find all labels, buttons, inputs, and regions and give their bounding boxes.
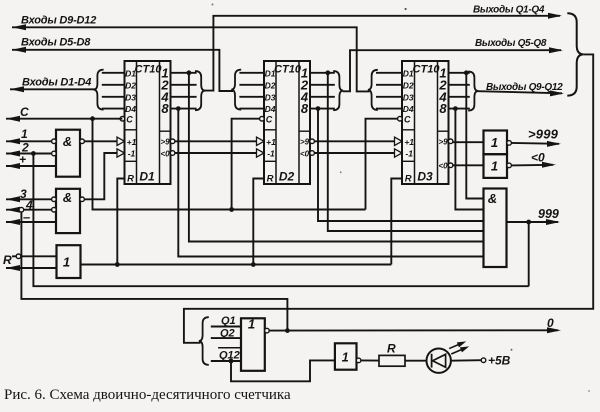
wire D3 input D10 — [376, 84, 402, 86]
svg-text:R: R — [3, 253, 12, 267]
U1 output circle — [80, 139, 85, 144]
wire D3 output 1 — [449, 72, 470, 74]
svg-text:D2: D2 — [279, 170, 295, 184]
wire D1 input D3 — [102, 96, 125, 98]
wire R to LED — [405, 360, 427, 362]
wire input 1 — [6, 140, 52, 142]
wire D3 output 8 — [449, 108, 470, 110]
arrow output >999 — [547, 141, 561, 147]
junction D1 output 8 — [176, 106, 181, 111]
D3 pin >9 inversion circle — [448, 139, 453, 144]
svg-text:R: R — [267, 174, 274, 185]
svg-text:<0: <0 — [160, 149, 170, 158]
wire D2 output 4 — [310, 96, 335, 98]
wire D2 input D7 — [239, 96, 264, 98]
junction C net — [90, 116, 95, 121]
wire D2 <0 to D3 -1 — [315, 152, 395, 154]
buffer U3 (1) for R — [57, 245, 81, 278]
svg-text:>9: >9 — [438, 138, 448, 147]
arrow input 3 — [6, 196, 20, 202]
wire C net lower run — [93, 119, 366, 210]
svg-text:1: 1 — [342, 351, 349, 365]
wire U2 out to D1 -1 — [84, 153, 117, 199]
wire input R upper — [12, 255, 57, 257]
terminal +5V — [481, 358, 486, 363]
svg-text:C: C — [404, 115, 411, 125]
arrow output 999 — [546, 219, 560, 225]
wire D2 output 2 — [310, 84, 335, 86]
wire D1 input D4 — [102, 108, 125, 110]
wire net Q9-Q12 — [478, 91, 562, 93]
brace inputs D1-D4 to D1 — [94, 70, 104, 110]
svg-text:8: 8 — [301, 101, 309, 116]
wire input + — [6, 165, 56, 167]
wire net 0 feedback to 4 — [21, 212, 287, 331]
svg-text:D4: D4 — [403, 104, 414, 114]
svg-text:D3: D3 — [417, 170, 433, 184]
junction input 2 net — [31, 151, 36, 156]
D2 pin <0 inversion circle — [310, 151, 315, 156]
brace outputs D3 (Q9-Q12) — [468, 72, 478, 111]
junction R net to D2 — [251, 262, 256, 267]
arrow input 1 — [6, 138, 20, 144]
D2 pin -1 dynamic triangle — [257, 149, 265, 157]
D3 pin +1 dynamic triangle — [395, 137, 403, 145]
wire net 0 output — [269, 329, 558, 331]
junction D3 output 1 — [464, 70, 469, 75]
counter D3 (CT10) — [395, 61, 453, 185]
U5 output circle — [507, 163, 512, 168]
wire Q2 input — [211, 337, 241, 339]
inverter U8 (1) LED driver — [335, 343, 357, 369]
wire D1 <0 to D2 -1 — [175, 152, 257, 154]
junction D1 output 1 — [187, 70, 192, 75]
brace bus to Q1 Q2 Q12 — [199, 317, 209, 365]
svg-text:8: 8 — [161, 101, 169, 116]
counter D2 (CT10) — [257, 61, 315, 185]
U1 input circle 2 — [52, 151, 57, 156]
OR gate U7 (1) zero detector — [241, 317, 265, 371]
wire D3 <0 to U5 — [453, 164, 484, 166]
AND gate U2 (&) for -1 — [56, 189, 80, 233]
arrow input C — [6, 116, 20, 122]
wire U1 out to D1 +1 — [84, 140, 117, 142]
junction C net to D2 — [229, 207, 234, 212]
wire net D5-D8 — [12, 50, 233, 91]
wire input 2 — [6, 153, 52, 155]
D2 pin C inversion circle — [260, 116, 265, 121]
svg-text:D2: D2 — [265, 80, 276, 90]
wire R riser to D1 — [117, 179, 124, 265]
svg-text:D4: D4 — [265, 104, 276, 114]
wire net C to D1 — [6, 118, 122, 120]
D1 pin -1 dynamic triangle — [117, 149, 125, 157]
wire net D1-D4 — [10, 88, 95, 90]
brace outputs D2 (Q5-Q8) — [333, 71, 343, 110]
wire input 3 — [6, 198, 52, 200]
arrow input D1-D4 — [10, 86, 24, 92]
svg-text:&: & — [63, 134, 72, 149]
svg-text:1: 1 — [21, 127, 28, 141]
wire output 999 — [507, 221, 559, 223]
D3 pin C inversion circle — [398, 116, 403, 121]
svg-text:Выходы Q1-Q4: Выходы Q1-Q4 — [473, 5, 545, 16]
svg-text:R: R — [127, 174, 134, 185]
svg-text:+1: +1 — [266, 137, 276, 147]
svg-text:Входы D9-D12: Входы D9-D12 — [21, 15, 96, 27]
wire D1 output 4 — [171, 96, 197, 98]
wire R riser to D3 — [391, 179, 402, 265]
svg-text:CT10: CT10 — [413, 64, 441, 76]
U2 input circle 1 — [52, 197, 57, 202]
AND gate U1 (&) for +1 — [56, 130, 80, 177]
wire net D9-D12 — [12, 27, 370, 91]
wire R riser to D2 — [253, 179, 264, 265]
svg-text:D3: D3 — [125, 92, 136, 102]
svg-text:&: & — [488, 191, 497, 206]
wire input R lower — [6, 267, 57, 269]
wire D1 output 2 — [171, 84, 197, 86]
junction 0 net — [285, 328, 290, 333]
buffer U5 (1) <0 detector — [484, 154, 508, 178]
U4 output circle — [507, 141, 512, 146]
U8 output circle — [356, 358, 361, 363]
svg-text:1: 1 — [248, 317, 255, 332]
svg-text:+: + — [19, 153, 26, 167]
arrow input − — [6, 219, 20, 225]
wire net 999 feedback to + — [33, 154, 528, 287]
wire D1-1 to U6 — [189, 73, 484, 242]
brace outputs D1 (Q1-Q4) — [195, 71, 205, 110]
wire 999 feedback riser — [528, 222, 530, 286]
junction Q12 to LED driver — [229, 359, 234, 364]
svg-text:Q1: Q1 — [221, 315, 236, 327]
svg-text:>9: >9 — [300, 138, 310, 147]
D1 pin >9 inversion circle — [170, 139, 175, 144]
arrow output Q9-Q12 — [550, 90, 564, 96]
wire Q12 to U8 — [231, 360, 335, 381]
wire D2-8 to U6 — [318, 109, 484, 221]
D2 pin +1 dynamic triangle — [257, 137, 265, 145]
wire D3 >9 to U4 — [453, 141, 484, 143]
wire bus Q1-Q12 feedback — [184, 54, 593, 342]
wire D2 input D8 — [239, 108, 264, 110]
D1 pin +1 dynamic triangle — [117, 137, 125, 145]
wire D3 input D11 — [376, 96, 402, 98]
wire D3 input D12 — [376, 108, 402, 110]
wire output <0 — [511, 164, 553, 167]
svg-text:D1: D1 — [265, 68, 276, 78]
svg-text:C: C — [266, 115, 273, 125]
scan speck — [405, 8, 407, 10]
wire D3 output 4 — [449, 96, 470, 98]
wire net Q1-Q4 — [205, 16, 560, 91]
arrow input + — [6, 163, 20, 169]
U1 input circle 1 — [52, 139, 57, 144]
svg-text:D1: D1 — [139, 170, 155, 184]
terminal circle R input — [16, 254, 21, 259]
overbar Q12 inversion — [218, 347, 241, 349]
svg-text:+1: +1 — [127, 137, 137, 147]
wire D1 >9 to D2 +1 — [175, 140, 257, 142]
LED VD1 — [427, 349, 451, 373]
svg-text:-1: -1 — [128, 149, 136, 159]
svg-text:Рис. 6. Схема двоично-десятичн: Рис. 6. Схема двоично-десятичного счетчи… — [4, 387, 291, 403]
arrow input 4 — [6, 207, 20, 213]
svg-text:>999: >999 — [528, 127, 559, 142]
svg-text:D2: D2 — [403, 80, 414, 90]
wire R net — [81, 264, 392, 266]
wire input − — [6, 221, 56, 223]
wire input 4 — [6, 209, 52, 211]
junction D2 output 1 — [325, 70, 330, 75]
wire D1-8 to U6 — [178, 109, 483, 257]
svg-text:-1: -1 — [267, 149, 275, 159]
arrow input 2 — [6, 151, 20, 157]
wire D3 output 2 — [449, 84, 470, 86]
svg-text:999: 999 — [538, 207, 559, 221]
brace inputs D9-D12 to D3 — [368, 70, 378, 110]
U2 output circle — [80, 197, 85, 202]
resistor R — [379, 355, 405, 366]
wire D2-1 to U6 — [328, 73, 484, 231]
svg-text:-1: -1 — [405, 149, 413, 159]
svg-text:R: R — [405, 174, 412, 185]
svg-text:CT10: CT10 — [135, 64, 163, 76]
svg-text:D3: D3 — [265, 92, 276, 102]
svg-text:Входы D5-D8: Входы D5-D8 — [21, 37, 91, 49]
brace inputs D5-D8 to D2 — [231, 70, 241, 110]
arrow output <0 — [542, 162, 556, 168]
svg-text:CT10: CT10 — [274, 64, 302, 76]
arrow input D5-D8 — [12, 47, 26, 53]
counter D1 (CT10) — [117, 61, 175, 185]
U2 input circle 2 — [52, 207, 57, 212]
wire D2 input D6 — [239, 84, 264, 86]
wire D2 output 8 — [310, 108, 335, 110]
svg-text:+5В: +5В — [488, 354, 511, 368]
D2 pin >9 inversion circle — [310, 139, 315, 144]
svg-text:8: 8 — [439, 101, 447, 116]
wire net Q5-Q8 — [343, 50, 561, 91]
svg-text:D2: D2 — [125, 80, 136, 90]
D3 pin -1 dynamic triangle — [395, 149, 403, 157]
svg-text:+1: +1 — [404, 137, 414, 147]
svg-text:C: C — [20, 105, 29, 119]
U7 output circle — [265, 328, 270, 333]
wire U8 to R — [361, 359, 379, 361]
svg-text:1: 1 — [63, 255, 70, 270]
svg-text:>9: >9 — [160, 138, 170, 147]
svg-text:Входы D1-D4: Входы D1-D4 — [22, 77, 91, 89]
D1 pin <0 inversion circle — [170, 151, 175, 156]
arrow input D9-D12 — [12, 24, 26, 30]
junction circle input 4 net — [19, 207, 24, 212]
D1 pin C inversion circle — [120, 116, 125, 121]
wire D1 input D2 — [102, 84, 125, 86]
svg-text:R: R — [387, 342, 396, 356]
wire output >999 — [511, 142, 559, 145]
wire D3-8 to U6 — [455, 109, 483, 210]
wire D2 >9 to D3 +1 — [315, 140, 395, 142]
svg-text:&: & — [63, 190, 72, 205]
svg-text:<0: <0 — [300, 149, 310, 158]
arrow output 0 — [547, 327, 561, 333]
arrow input R — [6, 265, 20, 271]
wire D3-1 to U6 — [466, 73, 483, 199]
svg-text:D1: D1 — [125, 68, 136, 78]
svg-text:C: C — [126, 115, 133, 125]
svg-text:D3: D3 — [403, 92, 414, 102]
wire D3 input D9 — [376, 72, 402, 74]
svg-text:<0: <0 — [438, 162, 448, 171]
junction 999 feedback — [526, 220, 531, 225]
junction D3 output 8 — [453, 106, 458, 111]
svg-text:D4: D4 — [125, 104, 136, 114]
svg-text:1: 1 — [491, 135, 498, 150]
svg-text:1: 1 — [491, 159, 498, 174]
wire Q1 input — [211, 326, 241, 328]
wire C net riser to D2 — [232, 119, 260, 210]
arrow output Q1-Q4 — [548, 13, 562, 19]
wire D1 output 8 — [171, 108, 197, 110]
junction R net to D1 — [115, 262, 120, 267]
svg-text:Выходы Q5-Q8: Выходы Q5-Q8 — [475, 38, 547, 49]
wire D1 input D1 — [102, 72, 125, 74]
wire D2 output 1 — [310, 72, 335, 74]
wire Q12 input — [211, 360, 241, 362]
LED light arrow 2 — [450, 344, 470, 357]
D3 pin <0 inversion circle — [448, 163, 453, 168]
wire D2 input D5 — [239, 72, 264, 74]
wire LED to +5V — [451, 359, 481, 362]
LED light arrow 1 — [448, 339, 467, 351]
junction D2 output 8 — [316, 106, 321, 111]
wire D1 output 1 — [171, 72, 197, 74]
wire C net riser to D3 — [366, 119, 398, 210]
brace outputs bus Q1-Q12 — [567, 13, 583, 95]
buffer U4 (1) >999 detector — [484, 131, 508, 155]
AND gate U6 (&) 999 detector — [484, 189, 507, 268]
svg-text:D1: D1 — [403, 68, 414, 78]
arrow output Q5-Q8 — [549, 47, 563, 53]
